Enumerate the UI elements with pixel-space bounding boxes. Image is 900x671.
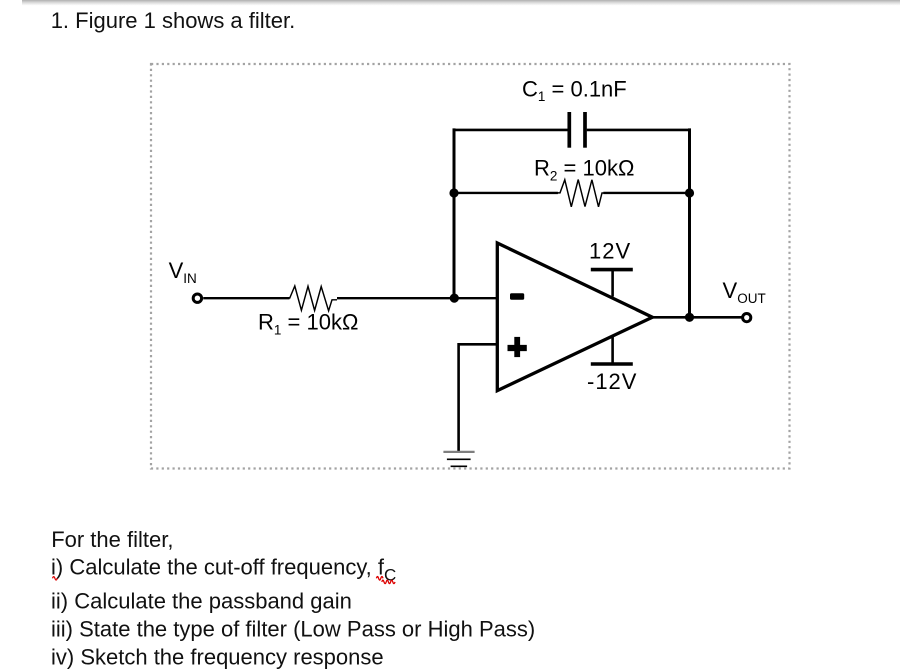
svg-text:ii) Calculate the passband gai: ii) Calculate the passband gain bbox=[51, 589, 352, 614]
svg-text:1. Figure 1 shows a filter.: 1. Figure 1 shows a filter. bbox=[51, 8, 296, 33]
svg-text:R2 = 10kΩ: R2 = 10kΩ bbox=[534, 156, 634, 184]
svg-text:C1 = 0.1nF: C1 = 0.1nF bbox=[522, 76, 627, 104]
svg-text:-12V: -12V bbox=[587, 369, 637, 394]
svg-text:iv) Sketch the frequency respo: iv) Sketch the frequency response bbox=[51, 644, 384, 669]
svg-text:For the filter,: For the filter, bbox=[51, 527, 173, 552]
svg-text:12V: 12V bbox=[589, 238, 631, 263]
svg-text:R1 = 10kΩ: R1 = 10kΩ bbox=[258, 310, 358, 338]
svg-text:iii) State the type of filter: iii) State the type of filter (Low Pass … bbox=[51, 617, 535, 642]
